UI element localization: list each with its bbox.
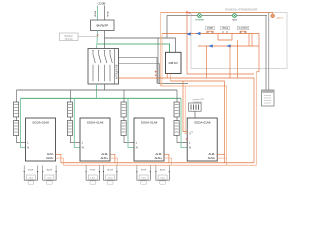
- wire between strips col3: [123, 117, 125, 121]
- wire lamp line dark: [191, 15, 267, 17]
- svg-text:ноль: ноль: [106, 11, 109, 17]
- wire strip to drive L col2: [70, 136, 80, 143]
- wire lower rung orange: [198, 45, 259, 47]
- contactor box KM: [88, 49, 119, 85]
- wire dark below contactor to dark bus: [104, 84, 106, 90]
- servo drive U3 SGDA-01A8: [134, 118, 164, 161]
- arrow blue a2: [208, 44, 212, 47]
- wire strip to drive L col1: [17, 136, 26, 143]
- wire right pair down: [224, 81, 226, 163]
- svg-text:SGDA-01A8: SGDA-01A8: [141, 121, 158, 125]
- noise filter strip top col4: [174, 102, 179, 117]
- arrow blue a3: [226, 44, 230, 47]
- svg-text:~220В: ~220В: [97, 1, 106, 5]
- wire orange drop left A: [159, 13, 161, 86]
- wire 24V to drive4 pin A: [183, 81, 187, 132]
- node red plus 24V output: [155, 71, 157, 76]
- wire bus y81: [170, 80, 224, 82]
- wire branch up to panel lamp line: [167, 16, 191, 38]
- lamp HL2 run: [232, 14, 238, 22]
- wire alm stubs drive1: [56, 154, 61, 163]
- svg-text:ПУСК: ПУСК: [222, 28, 229, 30]
- node red plus drive4: [186, 138, 188, 140]
- svg-text:N: N: [189, 147, 191, 150]
- contact SB1: [208, 31, 212, 34]
- wire self-hold loop: [218, 34, 232, 41]
- wire panel drop 3: [237, 40, 239, 78]
- wire alm chain bus upper: [61, 162, 254, 164]
- wire estop bump: [240, 31, 246, 33]
- svg-text:N: N: [82, 147, 84, 150]
- wire contactor aux contact A: [119, 58, 158, 84]
- noise filter strip top col1: [14, 102, 19, 117]
- wire alm stubs drive2: [110, 154, 115, 163]
- wire right bracket: [255, 72, 257, 166]
- svg-text:N-OT: N-OT: [160, 169, 166, 171]
- wire between strips col4: [176, 117, 178, 121]
- svg-text:N: N: [136, 147, 138, 150]
- svg-text:SGDA-01A8: SGDA-01A8: [32, 121, 49, 125]
- switch N-OT 6: [155, 165, 170, 184]
- noise filter strip bottom col2: [67, 121, 72, 136]
- wire green drop to drive N col1: [21, 98, 26, 147]
- wire between strips col1: [16, 117, 18, 121]
- button label PUSK: [221, 26, 230, 30]
- contact SB3: [241, 31, 245, 34]
- button label E-STOP: [237, 26, 249, 30]
- svg-text:P-OT: P-OT: [90, 169, 96, 171]
- svg-text:питание: питание: [195, 19, 205, 22]
- svg-text:ALM+: ALM+: [101, 156, 109, 160]
- wire panel drop 2: [229, 46, 231, 78]
- button label STOP: [206, 26, 215, 30]
- contactor pole 2: [98, 51, 101, 82]
- node junction red mark: [97, 35, 99, 37]
- switch P-OT 1: [24, 165, 39, 184]
- wire alm chain bus lower: [63, 164, 256, 166]
- lamp HL1 power: [195, 14, 205, 22]
- wire 24V output B: [169, 74, 171, 82]
- svg-text:ALM+: ALM+: [46, 156, 54, 160]
- wire green drop to drive N col4: [181, 98, 187, 147]
- svg-text:P-OT: P-OT: [28, 169, 34, 171]
- contact SB2: [223, 31, 227, 34]
- svg-text:N: N: [27, 147, 29, 150]
- wire estop drop pair: [248, 34, 250, 47]
- wire green drop to drive N col3: [128, 98, 134, 147]
- wire contactor coil to bus y78: [119, 78, 255, 163]
- wire dark pair to relay: [265, 16, 267, 90]
- arrow blue left: [186, 32, 190, 35]
- noise filter strip bottom col1: [14, 121, 19, 136]
- svg-text:ПАНЕЛЬ УПРАВЛЕНИЯ: ПАНЕЛЬ УПРАВЛЕНИЯ: [225, 7, 257, 11]
- servo drive U1 SGDA-01A8: [26, 118, 56, 161]
- wire orange drop left B: [186, 13, 188, 75]
- wire bus y86: [160, 85, 226, 87]
- switch P-OT 3: [86, 165, 101, 184]
- svg-text:SGDA-01A8: SGDA-01A8: [194, 121, 211, 125]
- svg-text:ФИЛЬТР: ФИЛЬТР: [96, 24, 108, 28]
- wire neutral from 220V to filter: [104, 6, 106, 21]
- contactor pole 3: [104, 51, 107, 82]
- wire neutral filter down: [104, 31, 106, 49]
- svg-text:фаза: фаза: [93, 10, 97, 17]
- svg-text:КАТУШКА ПВ: КАТУШКА ПВ: [116, 64, 119, 79]
- svg-text:N-OT: N-OT: [108, 169, 114, 171]
- wire bus y74: [187, 73, 254, 75]
- wire orange panel top feed: [160, 12, 269, 14]
- wire button rung orange: [162, 34, 259, 72]
- wire drop L col4: [176, 90, 178, 102]
- wire stop bump: [207, 31, 213, 33]
- switch N-OT 2: [42, 165, 57, 184]
- wire alm stubs drive3: [164, 154, 169, 163]
- svg-text:N-OT: N-OT: [47, 169, 53, 171]
- wire green drop to drive N col2: [74, 98, 80, 147]
- wire 24V output A: [166, 74, 168, 79]
- wire contactor aux contact B: [119, 64, 160, 84]
- green bus N: [21, 97, 182, 99]
- svg-text:ALM+: ALM+: [208, 156, 216, 160]
- wire 24V to drive4 pin B: [185, 86, 187, 134]
- svg-text:24В DC: 24В DC: [168, 61, 177, 65]
- node red cross mark: [186, 11, 190, 14]
- contactor pole 4: [109, 51, 112, 82]
- wire drop L col1: [16, 90, 18, 102]
- 24V DC power supply box: [166, 52, 182, 73]
- svg-text:СТОП: СТОП: [207, 28, 214, 30]
- svg-text:ALM+: ALM+: [155, 156, 163, 160]
- wire teal below contactor to green bus: [96, 84, 98, 98]
- noise filter strip top col2: [67, 102, 72, 117]
- svg-text:сирена: сирена: [276, 18, 284, 20]
- wire phase from 220V to filter: [97, 6, 99, 21]
- noise filter strip bottom col4: [174, 121, 179, 136]
- dark bus L: [17, 89, 178, 91]
- svg-text:С-СТОП: С-СТОП: [239, 28, 248, 30]
- wire phase filter to contactor: [97, 31, 98, 49]
- svg-text:Входное: Входное: [65, 35, 74, 37]
- wire branch down left of 24V: [158, 38, 188, 84]
- switch P-OT 5: [136, 165, 151, 184]
- contactor pole 1: [92, 51, 95, 82]
- noise filter strip top col3: [121, 102, 126, 117]
- siren HA1: [269, 13, 284, 20]
- switch N-OT 4: [103, 165, 118, 184]
- panel border: [191, 13, 287, 69]
- wire panel drop 1: [206, 46, 208, 78]
- wire strip to drive L col3: [124, 136, 134, 143]
- servo drive U2 SGDA-01A8: [80, 118, 110, 161]
- filter box: [91, 20, 115, 31]
- noise filter strip bottom col3: [121, 121, 126, 136]
- svg-text:P-OT: P-OT: [141, 169, 147, 171]
- servo drive U4 SGDA-01A8: [187, 118, 217, 161]
- callout input power label: [60, 33, 97, 41]
- wire rung drop left: [161, 34, 163, 87]
- arrow blue a1b: [196, 32, 200, 35]
- wire green branch to 24V DC: [98, 44, 170, 52]
- svg-text:SGDA-01A8: SGDA-01A8: [87, 121, 104, 125]
- wire strip to drive L col4: [177, 136, 187, 143]
- wire between strips col2: [69, 117, 71, 121]
- wire alm stubs drive4: [217, 153, 224, 155]
- svg-text:питание: питание: [65, 38, 74, 40]
- wire drop L col3: [123, 90, 125, 102]
- wire neutral branch to right (to panel and 24V): [105, 38, 176, 52]
- wire drop L col2: [69, 90, 71, 102]
